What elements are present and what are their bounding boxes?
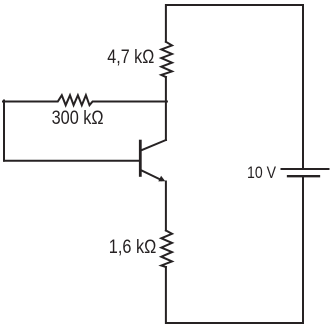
wire collector column: resistor R1 bottom to junction to collector elbow (165, 77, 167, 140)
wire bottom rail (166, 267, 303, 323)
wire right rail lower (302, 177, 304, 323)
svg-text:1,6 kΩ: 1,6 kΩ (109, 237, 157, 258)
wire right rail upper (302, 5, 304, 168)
svg-text:300 kΩ: 300 kΩ (52, 108, 104, 129)
svg-text:4,7 kΩ: 4,7 kΩ (107, 47, 154, 68)
emitter lead diagonal with arrow (141, 170, 161, 180)
wire top rail (166, 5, 303, 42)
svg-text:10 V: 10 V (247, 163, 277, 182)
resistor R1 4,7 kOhm (collector resistor, vertical zigzag) (161, 42, 172, 77)
resistor R3 1,6 kOhm (emitter resistor, vertical zigzag) (161, 231, 172, 268)
wire emitter column down to resistor R3 (165, 182, 167, 231)
base bar (139, 141, 142, 175)
battery V1 10 V (282, 169, 329, 176)
wire left loop: down from 300k to base wire (3, 101, 5, 161)
wire base lead (4, 160, 139, 162)
resistor R2 300 kOhm (base resistor, horizontal zigzag) (3, 95, 167, 105)
transistor Q1 (NPN) (140, 140, 166, 181)
collector lead diagonal (141, 140, 166, 150)
